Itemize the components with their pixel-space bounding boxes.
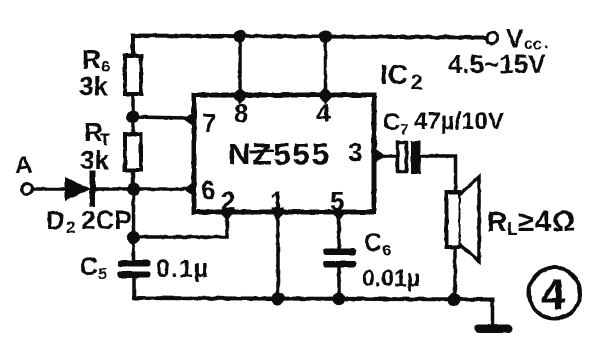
junction dot speaker rail bbox=[448, 293, 461, 306]
pin number 3 bbox=[348, 137, 362, 167]
pin marker 1 bbox=[271, 211, 286, 221]
svg-text:6: 6 bbox=[382, 241, 391, 260]
svg-text:4: 4 bbox=[541, 270, 566, 319]
wire bottom rail bbox=[134, 298, 493, 300]
wire pin 5 to C6 bbox=[337, 215, 341, 250]
pin marker 5 bbox=[332, 211, 347, 221]
pin marker 8 bbox=[232, 87, 248, 104]
junction dot pin2 branch bbox=[127, 231, 140, 244]
pin number 6 bbox=[201, 175, 215, 205]
svg-text:7: 7 bbox=[202, 108, 216, 138]
speaker RL bbox=[447, 177, 480, 262]
resistor RT bbox=[125, 134, 141, 170]
resistor R6 bbox=[125, 56, 141, 94]
svg-text:4: 4 bbox=[316, 98, 331, 128]
wire down to C5 bbox=[132, 189, 136, 260]
capacitor C6 bbox=[323, 249, 356, 268]
wire C5 to bottom rail bbox=[132, 278, 136, 298]
stroke through Z of NZ555 bbox=[251, 150, 272, 154]
svg-text:R: R bbox=[487, 206, 507, 237]
diode D2 bbox=[65, 174, 93, 204]
svg-text:3k: 3k bbox=[80, 145, 109, 175]
pin number 1 bbox=[270, 186, 284, 216]
wire A to diode bbox=[33, 187, 66, 191]
IC IC2 NZ555 bbox=[194, 95, 374, 212]
pin number 8 bbox=[234, 98, 248, 128]
figure number 4 circled bbox=[529, 268, 580, 320]
svg-text:L: L bbox=[507, 219, 518, 239]
wire C7 to speaker bbox=[421, 156, 456, 193]
junction dot pin4 rail bbox=[319, 30, 332, 43]
pin marker 7 bbox=[183, 112, 194, 127]
svg-text:2: 2 bbox=[221, 186, 235, 216]
svg-text:D: D bbox=[46, 205, 65, 235]
svg-text:NZ555: NZ555 bbox=[228, 137, 331, 172]
wire R6 bottom to RT top bbox=[131, 94, 135, 134]
svg-text:≥4Ω: ≥4Ω bbox=[518, 206, 576, 238]
svg-text:47µ/10V: 47µ/10V bbox=[414, 108, 504, 135]
pin number 5 bbox=[330, 186, 344, 216]
junction dot C6 rail bbox=[333, 293, 346, 306]
wire pin 1 to bottom rail bbox=[276, 215, 280, 298]
label NZ555 bbox=[228, 137, 331, 172]
wire RT bottom bbox=[131, 170, 135, 189]
svg-text:6: 6 bbox=[201, 175, 215, 205]
label C7 value bbox=[383, 108, 504, 138]
wire rail to ground bbox=[491, 300, 495, 326]
svg-text:4.5~15V: 4.5~15V bbox=[448, 49, 546, 79]
ground bbox=[475, 325, 513, 334]
svg-text:R: R bbox=[82, 44, 101, 74]
capacitor C5 bbox=[118, 260, 151, 278]
pin marker 4 bbox=[318, 87, 334, 104]
label C6 value bbox=[362, 229, 420, 291]
label R6 value bbox=[79, 44, 110, 101]
svg-text:A: A bbox=[15, 152, 32, 179]
pin number 7 bbox=[202, 108, 216, 138]
svg-text:2: 2 bbox=[411, 71, 423, 94]
svg-text:IC: IC bbox=[380, 59, 408, 90]
terminal A bbox=[22, 184, 33, 195]
svg-text:3: 3 bbox=[348, 137, 362, 167]
node Vcc label bbox=[448, 23, 548, 79]
label RL >= 4 ohm bbox=[487, 206, 576, 239]
pin marker 3 bbox=[375, 149, 386, 164]
pin marker 6 bbox=[183, 182, 194, 197]
node A label bbox=[15, 152, 32, 179]
capacitor C7 electrolytic bbox=[398, 141, 421, 174]
wire pin 2 bbox=[134, 216, 228, 237]
svg-text:2: 2 bbox=[66, 218, 75, 237]
label IC2 bbox=[380, 59, 423, 94]
wire pin 4 to rail bbox=[324, 37, 328, 94]
wire speaker to bottom rail bbox=[453, 247, 457, 299]
wire top Vcc rail bbox=[133, 36, 486, 59]
junction dot diode/RT bbox=[127, 183, 140, 196]
label D2 2CP bbox=[46, 205, 132, 237]
svg-text:C: C bbox=[364, 229, 382, 257]
label C5 value bbox=[80, 253, 209, 283]
svg-text:C: C bbox=[80, 253, 98, 281]
svg-text:3k: 3k bbox=[79, 71, 108, 101]
wire pin 8 to rail bbox=[238, 36, 242, 93]
svg-text:C: C bbox=[383, 109, 400, 136]
pin marker 2 bbox=[220, 211, 235, 221]
svg-text:5: 5 bbox=[98, 266, 107, 283]
svg-text:0.1µ: 0.1µ bbox=[156, 255, 209, 283]
wire diode to pin 6 bbox=[95, 187, 187, 191]
junction dot pin8 rail bbox=[234, 30, 247, 43]
pin number 2 bbox=[221, 186, 235, 216]
junction dot pin1 rail bbox=[272, 292, 285, 305]
pin number 4 bbox=[316, 98, 331, 128]
terminal Vcc bbox=[487, 33, 498, 44]
wire pin 3 to C7 bbox=[377, 154, 398, 158]
svg-text:0.01µ: 0.01µ bbox=[362, 265, 420, 291]
label RT value bbox=[80, 117, 111, 175]
wire pin 7 bbox=[133, 117, 187, 118]
svg-text:7: 7 bbox=[400, 121, 408, 138]
svg-text:2CP: 2CP bbox=[81, 205, 132, 235]
junction dot R6/RT/pin7 bbox=[127, 111, 140, 124]
wire C6 to bottom rail bbox=[337, 267, 341, 299]
